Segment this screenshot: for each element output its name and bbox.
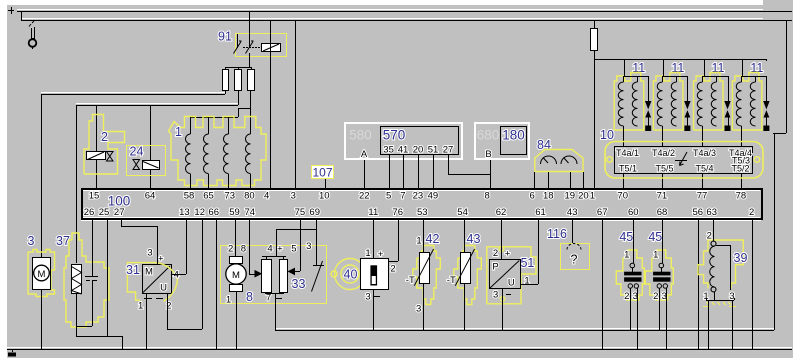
svg-text:65: 65 <box>203 191 214 202</box>
svg-text:39: 39 <box>734 251 748 265</box>
svg-text:1: 1 <box>416 236 421 247</box>
svg-text:56: 56 <box>693 207 704 218</box>
svg-text:1: 1 <box>624 250 629 261</box>
svg-text:2: 2 <box>493 248 498 259</box>
svg-text:42: 42 <box>426 232 440 246</box>
svg-text:24: 24 <box>130 145 144 159</box>
svg-text:U: U <box>160 283 167 294</box>
svg-text:T4a/2: T4a/2 <box>652 148 675 158</box>
svg-text:51: 51 <box>428 145 439 156</box>
svg-text:580: 580 <box>349 128 372 143</box>
svg-text:63: 63 <box>706 207 717 218</box>
svg-text:18: 18 <box>543 191 554 202</box>
svg-text:T5/1: T5/1 <box>619 164 637 174</box>
svg-text:67: 67 <box>597 207 608 218</box>
svg-text:3: 3 <box>416 304 421 315</box>
svg-text:10: 10 <box>319 191 330 202</box>
svg-text:3: 3 <box>291 191 296 202</box>
svg-text:6: 6 <box>530 191 535 202</box>
svg-text:M: M <box>38 269 46 280</box>
svg-text:58: 58 <box>184 191 195 202</box>
svg-text:69: 69 <box>309 207 320 218</box>
svg-text:2: 2 <box>624 291 629 302</box>
svg-text:2: 2 <box>390 264 395 275</box>
svg-text:5: 5 <box>291 243 296 254</box>
svg-text:T5/5: T5/5 <box>656 164 674 174</box>
svg-text:8: 8 <box>484 191 489 202</box>
svg-text:T5/4: T5/4 <box>696 164 714 174</box>
svg-text:B: B <box>485 149 491 160</box>
svg-text:1: 1 <box>653 250 658 261</box>
svg-text:180: 180 <box>502 128 525 143</box>
svg-text:1: 1 <box>365 248 370 259</box>
svg-text:37: 37 <box>56 234 70 248</box>
svg-text:2: 2 <box>653 291 658 302</box>
svg-text:80: 80 <box>244 191 255 202</box>
svg-text:53: 53 <box>417 207 428 218</box>
svg-text:43: 43 <box>467 232 481 246</box>
svg-text:P: P <box>492 261 498 272</box>
svg-text:8: 8 <box>246 290 253 304</box>
svg-text:35: 35 <box>383 145 394 156</box>
svg-text:-T: -T <box>447 275 456 286</box>
svg-text:75: 75 <box>295 207 306 218</box>
svg-text:-T: -T <box>406 275 415 286</box>
svg-text:49: 49 <box>428 191 439 202</box>
svg-text:T4a/1: T4a/1 <box>616 148 639 158</box>
svg-text:107: 107 <box>312 166 332 180</box>
svg-text:26: 26 <box>84 207 95 218</box>
svg-text:61: 61 <box>535 207 546 218</box>
svg-text:4: 4 <box>267 243 272 254</box>
svg-text:31: 31 <box>126 263 140 277</box>
svg-text:45: 45 <box>619 230 633 244</box>
svg-text:2: 2 <box>228 243 233 254</box>
svg-text:2: 2 <box>749 207 754 218</box>
svg-text:1: 1 <box>138 301 143 312</box>
svg-text:2: 2 <box>101 130 108 144</box>
svg-text:91: 91 <box>218 30 232 44</box>
svg-text:23: 23 <box>413 191 424 202</box>
svg-text:+: + <box>158 254 164 265</box>
svg-text:13: 13 <box>179 207 190 218</box>
svg-text:68: 68 <box>657 207 668 218</box>
svg-text:41: 41 <box>398 145 409 156</box>
svg-text:U: U <box>508 278 515 289</box>
svg-text:78: 78 <box>736 191 747 202</box>
svg-text:3: 3 <box>365 292 370 303</box>
svg-text:45: 45 <box>648 230 662 244</box>
svg-text:3: 3 <box>493 290 498 301</box>
svg-text:54: 54 <box>457 207 468 218</box>
svg-text:70: 70 <box>617 191 628 202</box>
svg-text:680: 680 <box>477 128 500 143</box>
svg-text:1: 1 <box>175 125 182 139</box>
svg-text:40: 40 <box>344 268 358 282</box>
svg-text:+: + <box>505 248 511 259</box>
svg-text:64: 64 <box>145 191 156 202</box>
svg-text:3: 3 <box>147 248 152 259</box>
svg-text:62: 62 <box>496 207 507 218</box>
svg-text:73: 73 <box>224 191 235 202</box>
svg-text:2: 2 <box>707 231 712 242</box>
svg-text:60: 60 <box>628 207 639 218</box>
svg-text:11: 11 <box>368 207 378 218</box>
svg-text:4: 4 <box>264 191 269 202</box>
svg-text:27: 27 <box>443 145 454 156</box>
svg-text:M: M <box>145 267 153 278</box>
svg-text:?: ? <box>571 253 578 267</box>
svg-text:22: 22 <box>359 191 370 202</box>
svg-text:27: 27 <box>114 207 125 218</box>
svg-text:A: A <box>361 149 368 160</box>
svg-text:51: 51 <box>520 256 534 270</box>
svg-text:+: + <box>277 244 283 255</box>
svg-text:71: 71 <box>657 191 668 202</box>
svg-text:T5/2: T5/2 <box>732 164 750 174</box>
svg-text:20: 20 <box>578 191 589 202</box>
svg-text:15: 15 <box>89 191 100 202</box>
svg-text:+: + <box>378 249 384 260</box>
svg-text:1: 1 <box>590 191 595 202</box>
svg-text:33: 33 <box>292 277 306 291</box>
svg-text:5: 5 <box>386 191 391 202</box>
svg-text:3: 3 <box>306 241 311 252</box>
svg-text:20: 20 <box>413 145 424 156</box>
svg-text:76: 76 <box>392 207 403 218</box>
svg-text:M: M <box>232 270 240 281</box>
svg-text:74: 74 <box>245 207 256 218</box>
svg-text:25: 25 <box>99 207 110 218</box>
svg-text:T4a/3: T4a/3 <box>693 148 716 158</box>
svg-text:116: 116 <box>547 227 567 241</box>
svg-text:66: 66 <box>208 207 219 218</box>
svg-text:7: 7 <box>266 293 271 304</box>
svg-text:19: 19 <box>565 191 576 202</box>
svg-text:43: 43 <box>567 207 578 218</box>
svg-text:59: 59 <box>229 207 240 218</box>
svg-text:3: 3 <box>28 234 35 248</box>
svg-text:570: 570 <box>383 128 406 143</box>
svg-text:8: 8 <box>241 243 246 254</box>
svg-text:77: 77 <box>697 191 708 202</box>
svg-text:12: 12 <box>194 207 205 218</box>
svg-text:10: 10 <box>600 128 614 142</box>
svg-text:2: 2 <box>166 301 171 312</box>
svg-text:1: 1 <box>226 295 231 306</box>
svg-text:7: 7 <box>400 191 405 202</box>
